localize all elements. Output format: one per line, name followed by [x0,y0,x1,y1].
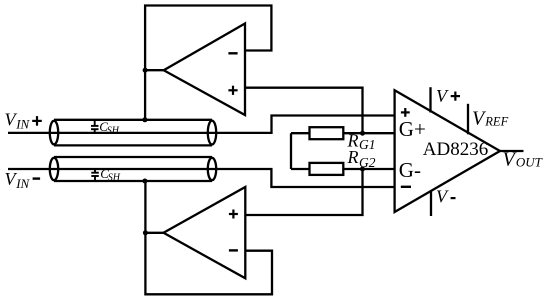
node bottom cable shield [142,179,147,184]
resistor RG2 [310,163,344,175]
label CSH1 [99,119,120,137]
svg-text:REF: REF [484,115,508,129]
wire U3 feedback loop (output to inverting input) [145,233,272,294]
op-amp U3 inverting input mark [229,249,238,251]
svg-text:G-: G- [399,158,421,182]
node top cable shield [142,117,147,122]
node U2 output [143,68,148,73]
label RG1 [347,130,376,152]
svg-text:G1: G1 [359,137,376,152]
label V- [436,187,449,207]
pin U1 VREF [467,104,469,135]
pin U1 -IN mark [401,186,411,188]
op-amp U3 (bottom shield driver) [164,187,246,278]
op-amp U3 noninverting input mark [229,210,238,219]
svg-text:SH: SH [107,126,120,137]
wire VIN+ inner conductor to AD8236 +IN [8,116,395,133]
wire U3 noninverting input to G- node [245,169,362,215]
wire RG1 left [291,132,310,134]
capacitor CSH1 (top cable shield capacitance) [91,120,99,133]
shielded cable top (shield body) [54,119,212,121]
label VIN- minus sign [33,177,41,179]
svg-text:SH: SH [108,172,121,183]
capacitor CSH2 (bottom cable shield capacitance) [91,169,99,181]
wire U2 output to top cable shield [144,70,146,120]
label VIN- [5,169,31,191]
node G+ [360,131,365,136]
svg-text:R: R [347,147,359,167]
svg-text:V: V [436,86,449,106]
svg-text:IN: IN [15,117,30,132]
label RG2 [347,147,376,170]
label CSH2 [100,166,121,184]
label VIN+ plus sign [32,116,42,126]
label VREF [472,108,509,130]
node U3 output [143,230,148,235]
op-amp U2 noninverting input mark [228,86,237,95]
wire U3 output [145,232,163,234]
node G- [360,167,365,172]
pin U1 V+ [429,87,431,112]
wire U1 output [500,150,524,152]
shielded cable bottom (shield body) [54,156,212,158]
wire RG2 left [291,168,310,170]
wire RG1 right to G+ pin [343,132,394,134]
shielded cable top right end [208,121,216,145]
wire RG2 right to G- pin [343,168,394,170]
label V- minus sign [451,197,456,199]
svg-text:G2: G2 [359,155,376,170]
shielded cable bottom right end [208,158,216,180]
pin U1 +IN mark [401,108,410,117]
svg-text:AD8236: AD8236 [423,139,488,160]
label VIN+ [5,110,31,132]
wire U3 output to bottom cable shield [144,181,146,233]
wire U2 feedback loop (output to inverting input) [145,6,271,71]
shielded cable top left end [50,121,58,145]
svg-text:V: V [436,187,449,207]
label VOUT [503,148,543,170]
op-amp U2 (top shield driver) [164,24,245,116]
label V+ [436,86,449,106]
op-amp U1 AD8236 [395,90,500,212]
resistor RG1 [310,127,344,139]
label V+ plus sign [451,92,460,101]
svg-text:G+: G+ [399,117,426,141]
wire VIN- inner conductor to AD8236 -IN [8,169,395,187]
svg-text:OUT: OUT [516,155,543,170]
op-amp U2 inverting input mark [228,52,237,54]
svg-text:IN: IN [15,176,30,191]
wire U2 output [145,69,164,71]
shielded cable bottom left end [50,158,58,180]
wire joining RG1 and RG2 left ends [290,133,292,169]
wire U2 noninverting input to G+ node [245,88,363,134]
pin U1 V- [430,191,432,216]
